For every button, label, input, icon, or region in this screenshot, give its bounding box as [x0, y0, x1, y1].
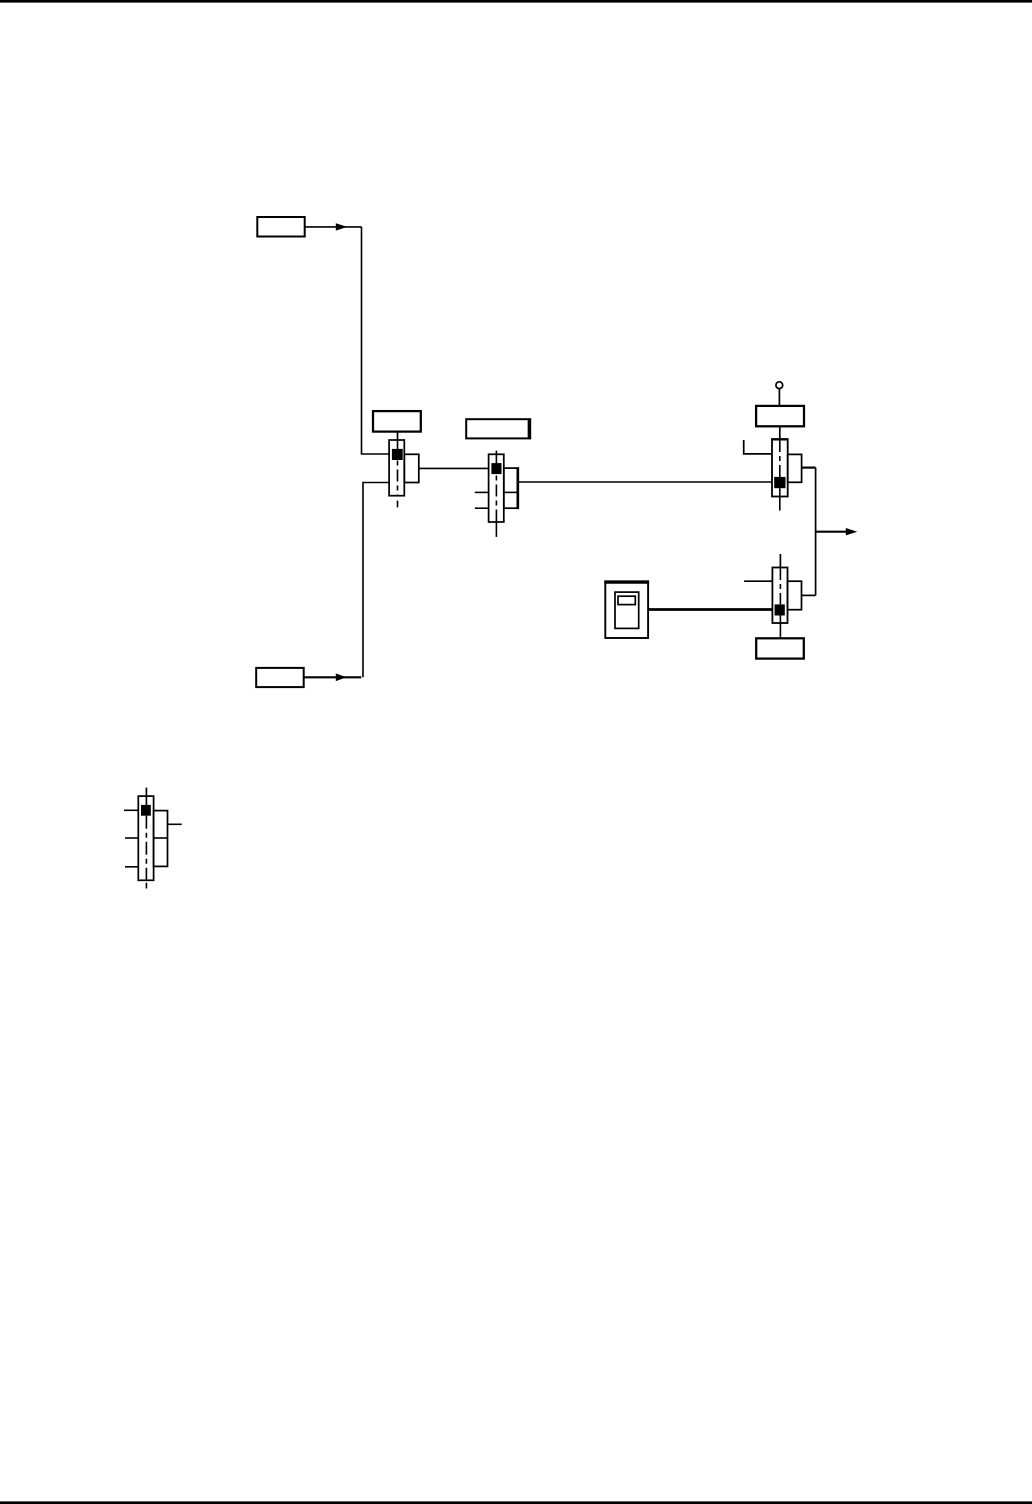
legend valve V5 plug (black square)	[141, 805, 151, 816]
valve V1 spindle top	[397, 440, 399, 450]
stem L1 to V1	[397, 431, 399, 441]
label box L3 (valve V3 tag)	[756, 406, 804, 426]
valve V3 body	[772, 439, 788, 496]
label box B2 (bottom-left source)	[256, 668, 304, 687]
valve V2 plug (black square)	[491, 463, 501, 474]
valve V3 body top edge	[771, 438, 788, 440]
valve V3 center dashed spindle	[779, 440, 781, 477]
wire junction vertical V3-V4	[815, 468, 817, 596]
wire V1 lower port to bottom node	[363, 483, 389, 678]
valve V3 right chamber	[788, 454, 802, 482]
valve V4 spindle top stub	[779, 554, 781, 568]
valve V1 body	[389, 440, 404, 496]
wire V2 out to V3 (long run)	[518, 481, 772, 483]
label box L2 (valve V2 tag)	[466, 419, 530, 438]
valve V2 left stub port b	[475, 507, 489, 509]
valve V1 right chamber	[404, 454, 419, 482]
wire V3 out to junction	[802, 467, 816, 469]
legend valve V5 center dashed spindle	[145, 816, 147, 881]
valve V1 plug (black square)	[392, 449, 403, 460]
valve V4 spindle bottom stub	[779, 616, 781, 639]
valve V1 center dashed spindle	[397, 461, 399, 496]
legend valve V5 spindle tail dash	[145, 883, 147, 889]
legend valve V5 right chamber divider	[154, 837, 168, 839]
wire vertical down to valve V1 upper port	[362, 227, 390, 454]
wire B2 to node, with arrow	[304, 676, 362, 678]
valve V2 right chamber divider	[504, 491, 518, 493]
wire V1 out to V2	[419, 467, 489, 469]
valve V4 plug (black square)	[775, 604, 785, 615]
label box B1 (top-left source)	[257, 217, 304, 237]
arrowhead into vertical wire (top)	[336, 223, 347, 230]
label box L2 right thick edge	[528, 418, 531, 439]
valve V4 left stub	[744, 580, 772, 582]
stem L3 to V3	[779, 426, 781, 440]
legend valve V5 left stub 2	[125, 837, 138, 839]
device D1 inner frame	[615, 592, 639, 628]
valve V4 center dashed spindle	[779, 568, 781, 604]
legend valve V5 left stub 3	[125, 866, 138, 868]
legend valve V5 right chamber	[154, 811, 168, 867]
valve V2 body	[489, 454, 504, 522]
outlet arrow wire	[816, 531, 847, 533]
label box L4 (valve V4 tag)	[756, 638, 804, 658]
valve V2 spindle bottom stub	[495, 522, 497, 537]
device D1 outer case	[605, 581, 648, 638]
thick wire D1 to V4	[648, 608, 772, 611]
stem circle to L3	[778, 388, 780, 406]
valve V3 left L-stub	[744, 440, 772, 454]
bottom page rule	[0, 1501, 1032, 1504]
legend valve V5 spindle top stub	[145, 788, 147, 805]
device D1 top thick edge	[604, 581, 649, 584]
valve V2 left stub port a	[475, 491, 489, 493]
label box L1 (valve V1 tag)	[373, 411, 421, 432]
valve V3 spindle bottom stub	[779, 488, 781, 510]
legend valve V5 right stub	[168, 823, 182, 825]
valve V4 right chamber	[788, 581, 802, 610]
outlet arrowhead	[846, 528, 857, 535]
legend valve V5 body	[138, 796, 153, 880]
valve V2 spindle top stub	[495, 451, 497, 464]
device D1 display window	[618, 596, 635, 604]
wire V4 out to junction	[802, 594, 816, 596]
wire B1 to node, with arrow	[305, 226, 362, 228]
valve V3 plug (black square)	[774, 477, 785, 488]
vent circle of valve V3	[776, 382, 783, 389]
top page rule	[0, 0, 1032, 3]
valve V2 right chamber thick edge	[516, 467, 519, 509]
valve V2 right chamber	[504, 468, 518, 508]
arrowhead into vertical wire (bottom)	[336, 674, 347, 682]
valve V4 body	[772, 568, 787, 624]
valve V1 spindle tail dash	[397, 501, 399, 508]
legend valve V5 left stub 1	[124, 809, 138, 811]
valve V2 center dashed spindle	[495, 476, 497, 523]
